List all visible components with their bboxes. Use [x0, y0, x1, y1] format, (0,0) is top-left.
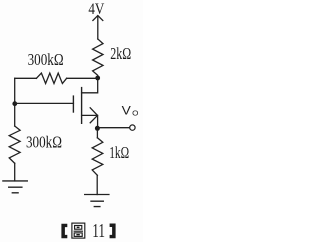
power supply label 4V	[88, 0, 104, 18]
svg-text:4V: 4V	[88, 0, 104, 18]
resistor 1k (vertical zigzag)	[92, 138, 103, 176]
resistor 2k (vertical zigzag)	[93, 39, 103, 77]
node S junction dot	[95, 126, 100, 131]
wire: output lead	[97, 127, 129, 129]
ground (right)	[85, 195, 109, 207]
wire: top horizontal right segment to node D	[67, 77, 96, 79]
caption left lenticular bracket	[61, 224, 67, 239]
resistor 300k horizontal zigzag	[36, 73, 66, 83]
label Vo	[122, 104, 139, 118]
wire: resistor 1k to ground	[96, 175, 98, 194]
svg-text:2kΩ: 2kΩ	[110, 44, 131, 63]
transistor M1 drain lead	[82, 80, 98, 93]
label 2kΩ	[110, 44, 131, 63]
svg-text:11: 11	[92, 221, 105, 242]
wire: gate lead	[15, 102, 74, 104]
label 300kΩ (top)	[28, 50, 64, 69]
caption right lenticular bracket	[110, 224, 116, 239]
caption character 圖	[72, 223, 85, 238]
svg-text:300kΩ: 300kΩ	[26, 132, 62, 151]
transistor M1 channel bar	[81, 88, 83, 124]
label 300kΩ (left)	[26, 132, 62, 151]
svg-text:O: O	[132, 109, 139, 118]
node D junction dot	[95, 76, 100, 81]
wire: left vertical from corner down through node G	[14, 78, 16, 126]
transistor M1 source lead	[82, 115, 98, 126]
svg-text:300kΩ: 300kΩ	[28, 50, 64, 69]
svg-text:V: V	[122, 104, 131, 118]
output terminal circle	[130, 125, 135, 130]
transistor M1 source arrowhead	[90, 108, 97, 123]
node G junction dot	[12, 101, 17, 106]
transistor M1 gate bar	[72, 96, 74, 112]
wire: node S to resistor 1k	[96, 129, 98, 138]
label 1kΩ	[109, 143, 129, 162]
supply arrow (up arrowhead on node wire)	[93, 16, 103, 40]
svg-text:1kΩ: 1kΩ	[109, 143, 129, 162]
resistor 300k vertical (left) zigzag	[9, 126, 20, 163]
wire: top horizontal left segment	[15, 77, 37, 79]
ground (left)	[3, 181, 27, 193]
wire: resistor 300k to ground	[14, 163, 16, 181]
